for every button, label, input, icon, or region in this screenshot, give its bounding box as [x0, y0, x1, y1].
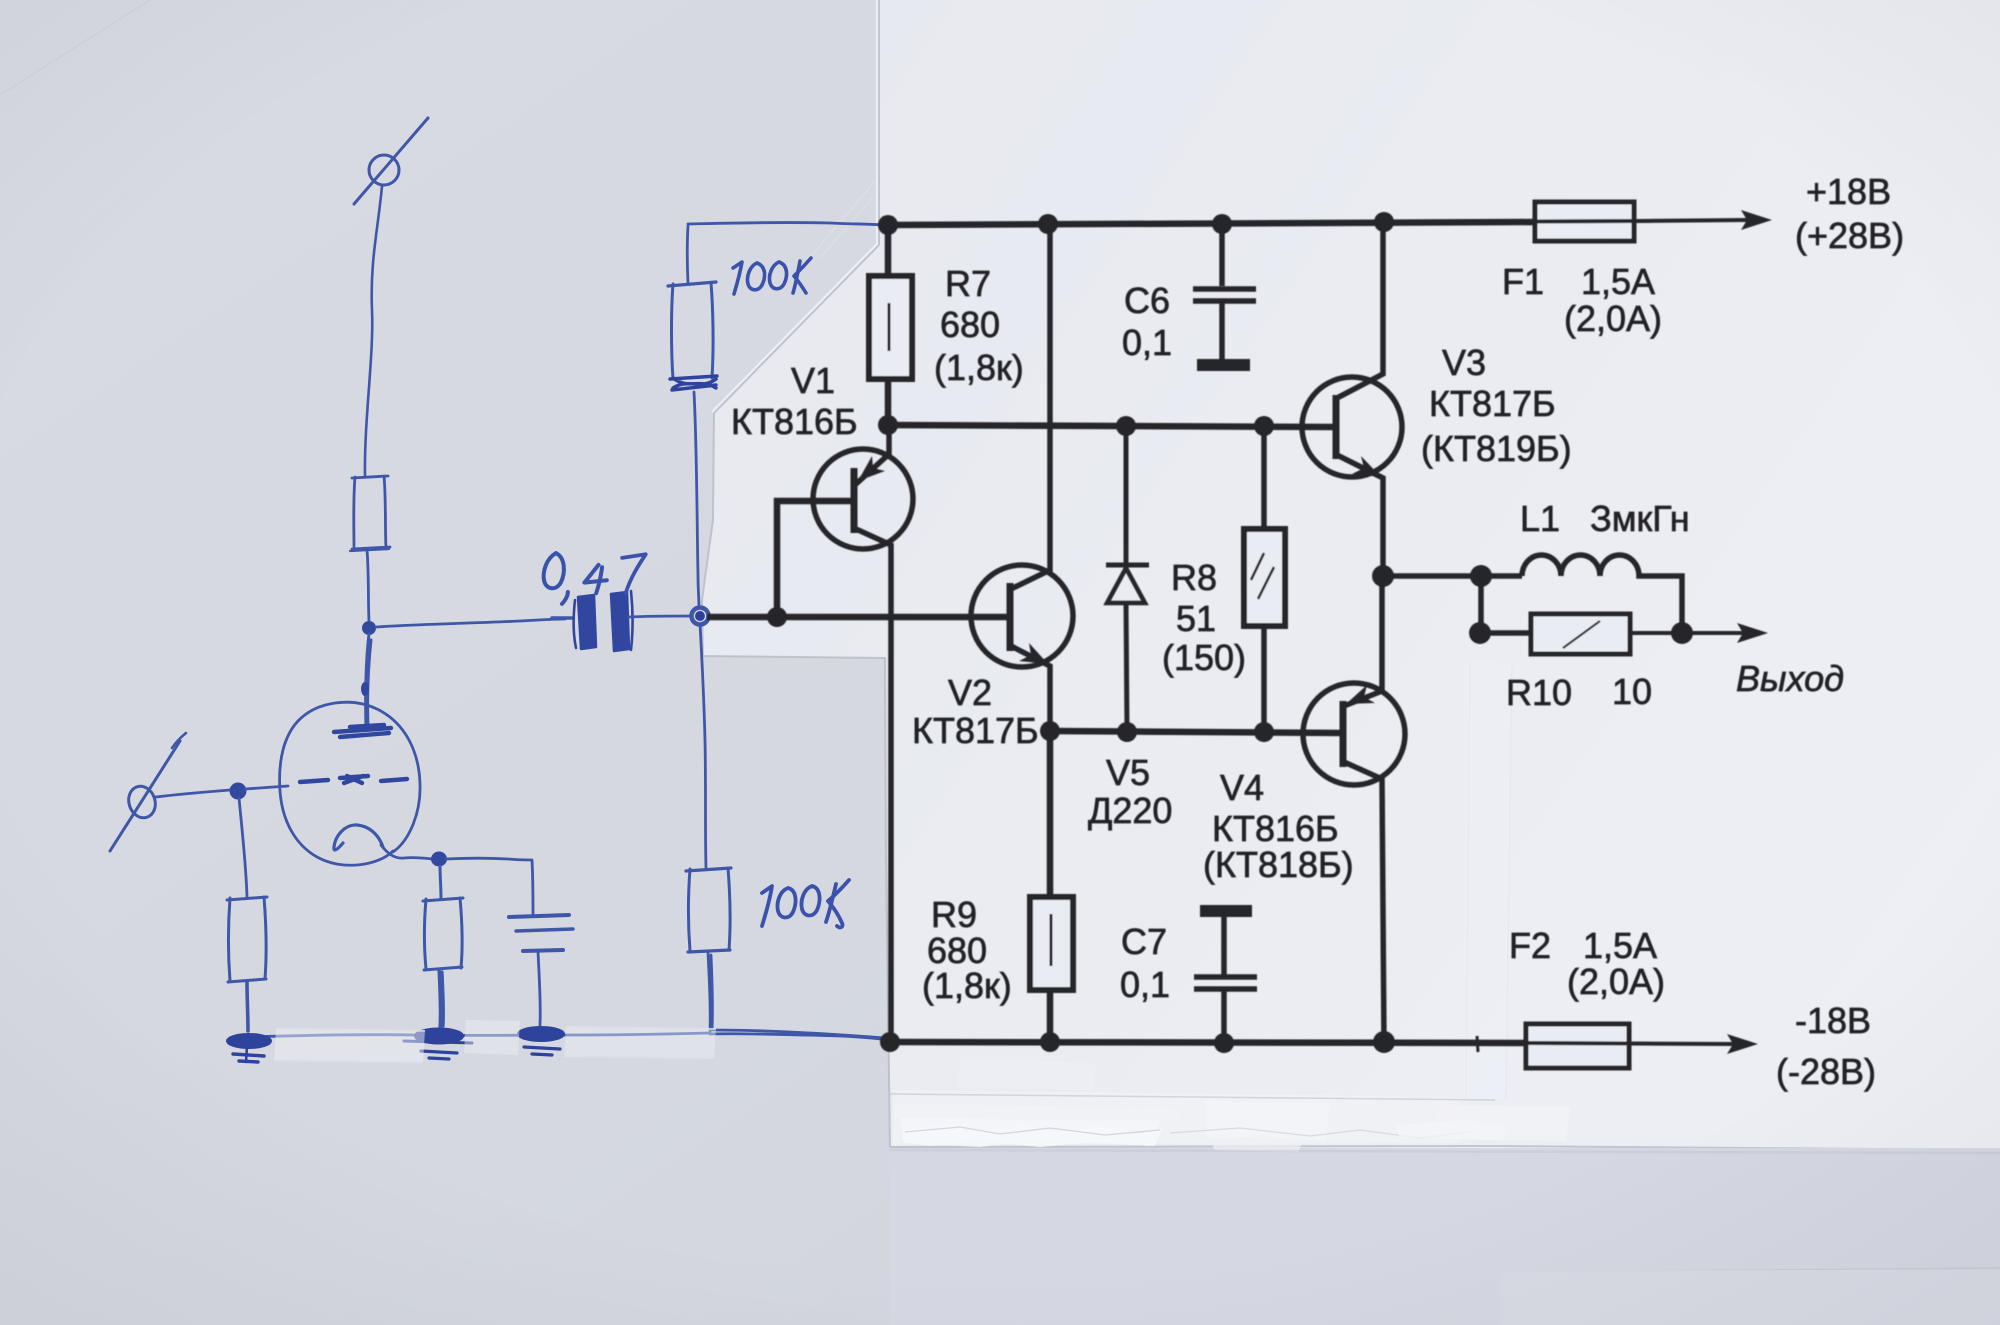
capacitor C7 [1194, 911, 1257, 1043]
transistor V2 [971, 224, 1073, 731]
resistor Ra anode load [350, 476, 390, 551]
wire : +rail top from node A to fuse F1 [888, 222, 1537, 225]
node : +rail / C6 [1212, 214, 1232, 234]
node : under R7 [878, 415, 898, 435]
node : V1 base junction [767, 607, 787, 627]
resistor R 100k upper (to +rail) [668, 223, 884, 607]
wire : V1 emitter / V3 base line [888, 425, 1336, 427]
arrow : -18V output [1727, 1034, 1758, 1054]
torn tape texture pieces [902, 1124, 1162, 1147]
resistor Rk cathode [423, 866, 463, 1027]
node : diode V5 bottom [1117, 722, 1137, 742]
resistor R8 [1244, 426, 1285, 732]
faint lower paper edge bottom right [1500, 1268, 2000, 1272]
fuse F2 [1526, 1024, 1629, 1068]
wire : anode node to coupling cap [376, 619, 565, 627]
sheet bottom torn edge line [890, 1146, 2000, 1150]
arrow : +18V output [1741, 210, 1772, 230]
label 100 K upper handwritten [733, 258, 811, 294]
resistor R9 [1030, 731, 1073, 1042]
label 100K lower handwritten [762, 880, 849, 927]
wire : cathode lead [381, 845, 432, 859]
transistor V3 [1302, 222, 1402, 576]
node : R10 left [1469, 622, 1491, 644]
tube envelope [280, 702, 420, 865]
ground : grid resistor [227, 1034, 271, 1062]
node : R8 bottom [1254, 722, 1274, 742]
node : R8 top [1254, 416, 1274, 436]
capacitor Ck cathode bypass [446, 858, 573, 1025]
node : R10 right / output [1671, 622, 1693, 644]
vacuum tube V triode [280, 702, 432, 865]
white printed sheet [702, 0, 2000, 1150]
wire : tick mark on -rail [1477, 1036, 1478, 1052]
wire : output node to L1/R10 [1383, 573, 1522, 579]
arrow : Vyhod output [1737, 623, 1768, 643]
crease on grey paper near sheet corner [806, 180, 876, 262]
node : L1 left [1470, 565, 1492, 587]
node : +rail / V2 collector [1038, 214, 1058, 234]
node : -rail / V4 collector [1373, 1031, 1395, 1053]
printed black section [707, 202, 1772, 1068]
terminal X1 anode supply [354, 118, 428, 204]
node : output at V3/V4 emitters [1372, 565, 1394, 587]
node : cathode node [431, 852, 447, 867]
node : -rail / R9 [1040, 1032, 1060, 1052]
node : ring junction to printed amp input [692, 608, 709, 625]
wire : fuse F1 through-line and output arrow [1537, 220, 1747, 222]
wire : anode node down to tube plate [366, 634, 371, 728]
resistor Rg grid leak [227, 897, 267, 1031]
printed labels [731, 171, 1904, 1092]
fuse F1 [1535, 202, 1634, 241]
node : anode node [362, 621, 376, 635]
ground : cathode capacitor [518, 1027, 564, 1055]
tape strip vertical right of V4 [1462, 660, 1512, 1100]
transistor V4 [1303, 576, 1405, 1042]
node : diode V5 top [1116, 416, 1136, 436]
wire : grid node to tube grid [245, 786, 288, 789]
hand-drawn blue section [110, 118, 888, 1062]
resistor R 100k lower (to ground) [686, 624, 731, 1032]
wire : link down to R10 [1478, 576, 1484, 633]
ground bus wire [248, 1033, 708, 1037]
tube anode plate [334, 725, 391, 737]
wire : -rail bottom [890, 1042, 1528, 1043]
wire : anode resistor to anode node [367, 550, 369, 621]
label 0,47 handwritten [544, 553, 646, 604]
tape strip bottom long [893, 1090, 1460, 1145]
node : +rail / V3 collector [1374, 212, 1394, 232]
wire : V2 emitter / V4 base line [1050, 731, 1343, 733]
node : -rail / C7 [1214, 1033, 1234, 1053]
transistor V1 [777, 425, 913, 1042]
resistor R7 [885, 225, 892, 276]
ground : cathode resistor [404, 1029, 472, 1060]
capacitor C6 [1193, 225, 1256, 365]
tape strips over ground bus [274, 1020, 716, 1063]
node : +rail left end [878, 215, 898, 235]
tube cathode arc [334, 825, 383, 850]
capacitor C 0,47 coupling [552, 591, 692, 651]
node : grid node [230, 783, 247, 800]
node : V2 emitter [1040, 721, 1060, 741]
wire : input terminal to grid node [156, 790, 230, 797]
wire : grid node down to grid resistor [239, 798, 247, 897]
wire : supply terminal down to anode resistor [365, 186, 382, 476]
resistor R10 [1480, 614, 1745, 654]
diode V5 [1106, 426, 1149, 732]
tube grid dashes [300, 776, 407, 783]
node : -rail left end [880, 1032, 900, 1052]
terminal X2 signal input [110, 733, 186, 851]
inductor L1 [1522, 555, 1682, 633]
wire : base line from input ring to V2 [707, 614, 1010, 621]
